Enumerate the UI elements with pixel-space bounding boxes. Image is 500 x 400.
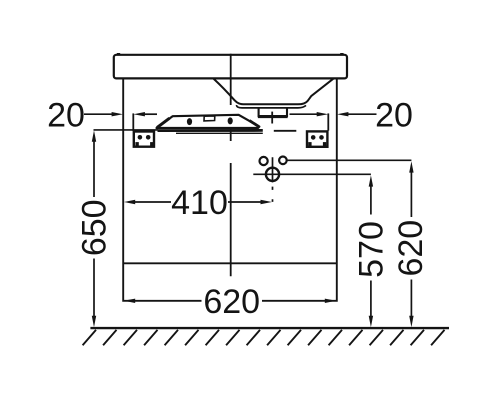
rail left end curl bbox=[157, 118, 170, 127]
ground hatching bbox=[83, 330, 445, 345]
svg-text:20: 20 bbox=[47, 96, 85, 134]
rail hole right bbox=[228, 117, 233, 124]
siphon horizontal leader bbox=[253, 173, 371, 175]
rail hole left bbox=[187, 118, 192, 125]
right side line with bottom 620 dimension line bbox=[262, 79, 337, 301]
center line of unit bbox=[230, 54, 232, 276]
dimension 410 lines and arrows bbox=[124, 200, 272, 204]
dimension 20 left lines and arrows bbox=[84, 112, 157, 116]
left side line with bottom 620 dimension line bbox=[123, 79, 201, 301]
right cabinet edge stub bbox=[327, 113, 329, 130]
svg-text:410: 410 bbox=[171, 184, 228, 222]
fixing hole right circle bbox=[279, 157, 287, 165]
right bracket bbox=[307, 131, 327, 146]
dimension 570 line and arrows bbox=[369, 175, 373, 327]
left cabinet edge stub bbox=[132, 113, 134, 131]
siphon outlet crosshair circle bbox=[266, 168, 279, 181]
cabinet bottom bbox=[123, 262, 337, 264]
siphon vertical center line bbox=[272, 157, 274, 202]
dimension 650 line and arrows bbox=[92, 130, 96, 327]
dimension 20 right lines and arrows bbox=[290, 112, 377, 116]
svg-text:20: 20 bbox=[375, 96, 413, 134]
svg-text:620: 620 bbox=[203, 283, 260, 321]
svg-text:570: 570 bbox=[352, 221, 390, 278]
leader line from right hole bbox=[287, 159, 412, 161]
left bracket bbox=[134, 132, 154, 147]
bowl outer profile bbox=[214, 79, 334, 105]
dashed fixing line bbox=[274, 130, 297, 132]
slab tick right bbox=[340, 53, 343, 55]
ground line bbox=[90, 327, 449, 329]
drain fitting bbox=[259, 108, 287, 116]
svg-text:620: 620 bbox=[392, 220, 430, 277]
drain box bottom edge bbox=[258, 116, 288, 118]
rail slot bbox=[204, 116, 215, 121]
washbasin top slab bbox=[114, 55, 347, 79]
drain center line bbox=[271, 112, 273, 124]
rail right end curl bbox=[250, 121, 259, 127]
rail base plate bbox=[158, 129, 263, 132]
rail lower edge line bbox=[176, 132, 263, 134]
dimension 620 bottom arrows bbox=[124, 299, 336, 303]
fixing hole left circle bbox=[260, 157, 268, 165]
bowl inner lip bbox=[237, 105, 306, 108]
svg-text:650: 650 bbox=[76, 199, 114, 256]
dimension 620 right line and arrows bbox=[409, 161, 413, 327]
mounting rail body bbox=[157, 115, 260, 128]
slab tick left bbox=[117, 53, 120, 55]
rail reference extension line bbox=[94, 129, 159, 131]
